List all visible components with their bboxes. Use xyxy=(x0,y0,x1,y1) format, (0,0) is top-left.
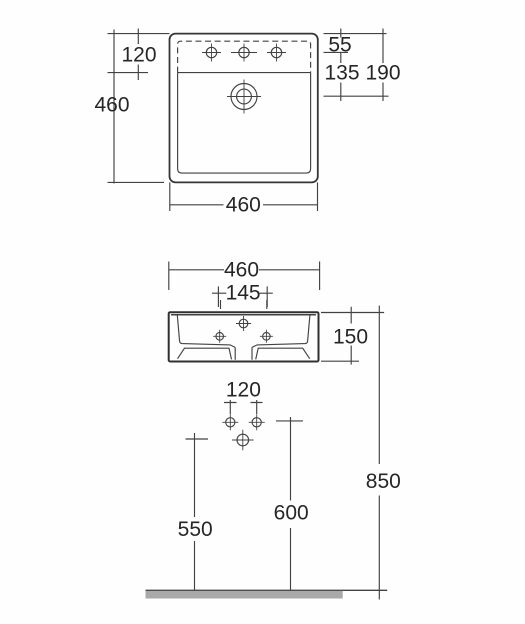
dim 460 front line xyxy=(169,269,320,271)
floor slab xyxy=(146,591,343,599)
waste hole xyxy=(232,430,254,451)
svg-text:120: 120 xyxy=(121,44,156,67)
svg-text:460: 460 xyxy=(224,259,259,282)
dim 145 line xyxy=(212,292,273,294)
dim 145 end ticks xyxy=(218,286,267,307)
tap hole 1 xyxy=(202,44,221,62)
svg-text:460: 460 xyxy=(94,93,129,116)
svg-text:145: 145 xyxy=(226,282,261,305)
dim 460 bottom line xyxy=(170,204,318,206)
dim 850 vertical line xyxy=(378,306,380,600)
front hole right xyxy=(260,330,273,343)
top view deck front edge line xyxy=(178,72,311,74)
dim 150 vertical ticks xyxy=(350,307,352,365)
front hole left xyxy=(213,330,226,343)
extension lines plan bottom xyxy=(170,182,318,211)
dim 190 vertical line xyxy=(382,29,384,102)
front hole center xyxy=(236,316,251,331)
dim 55 vertical tick xyxy=(340,29,342,102)
dim 550 top tick xyxy=(186,438,209,440)
tap hole 3 xyxy=(267,44,286,62)
dim 120 horizontal ticks xyxy=(224,402,263,404)
front view right foot xyxy=(256,348,310,359)
dim 150 extension bottom xyxy=(321,360,359,362)
tap hole 2 xyxy=(231,44,257,62)
drain hole plan xyxy=(227,80,261,114)
front view basin bottom right xyxy=(252,344,305,348)
front view outer body xyxy=(169,312,319,361)
dim tick 460 bottom left xyxy=(108,181,165,183)
extension 145 to rim xyxy=(221,300,267,309)
dim 550 vertical line xyxy=(194,433,196,590)
svg-text:190: 190 xyxy=(365,62,400,85)
front view left foot xyxy=(178,348,232,359)
front view drain boss xyxy=(235,347,252,359)
dim 460 front end ticks xyxy=(169,262,320,291)
dim tick 55 bottom xyxy=(324,51,349,53)
floor line xyxy=(146,589,388,591)
svg-text:460: 460 xyxy=(226,193,261,216)
dim 600 top tick xyxy=(276,420,303,422)
svg-text:55: 55 xyxy=(328,33,351,56)
front view rim thick top xyxy=(171,314,316,316)
dim tick 135/190 bottom xyxy=(324,95,389,97)
dim tick 120 bottom xyxy=(108,72,149,74)
svg-text:135: 135 xyxy=(324,62,359,85)
dim 120 vertical ticks xyxy=(230,400,256,414)
svg-text:850: 850 xyxy=(366,470,401,493)
dim 460 left vertical line xyxy=(113,30,115,184)
fixing hole left xyxy=(222,414,238,430)
front view basin bottom left xyxy=(182,344,235,348)
svg-text:150: 150 xyxy=(333,326,368,349)
svg-text:600: 600 xyxy=(274,501,309,524)
front view left inner wall xyxy=(177,315,182,343)
dim 600 vertical line xyxy=(290,417,292,590)
front view right inner wall xyxy=(305,315,310,343)
dim tick top edge right xyxy=(324,33,387,35)
fixing hole right xyxy=(249,414,265,430)
dim tick top edge left xyxy=(108,33,170,35)
dim 120 vertical tick xyxy=(137,29,139,81)
top view basin inner edge xyxy=(178,73,311,174)
dim 150 extension top / 850 top tick xyxy=(321,312,384,314)
svg-text:120: 120 xyxy=(226,378,261,401)
top view hidden basin rim (dashed) xyxy=(178,41,311,72)
top view outer edge xyxy=(170,34,318,183)
svg-text:550: 550 xyxy=(178,518,213,541)
